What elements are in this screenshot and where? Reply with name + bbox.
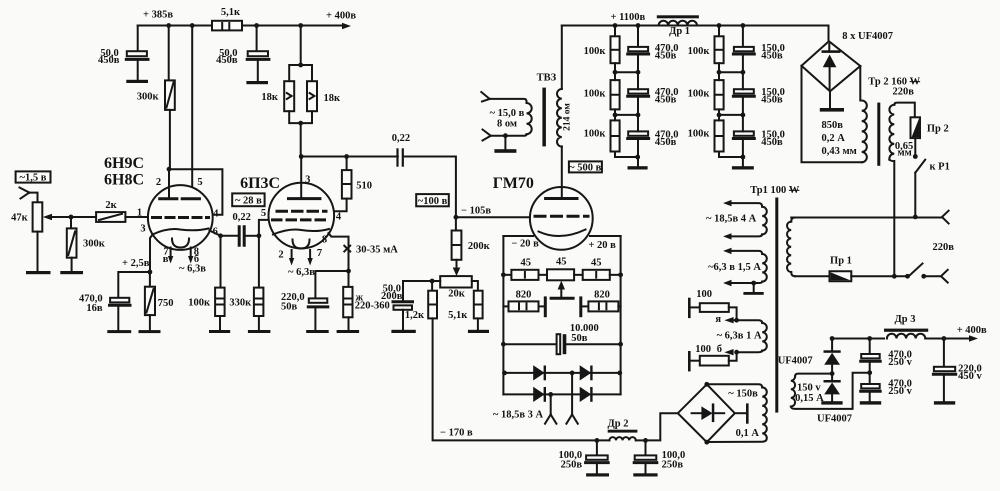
bias bridge plus bar bbox=[735, 403, 749, 423]
wire cathode1 to +2,5v node bbox=[150, 234, 153, 272]
svg-text:100к: 100к bbox=[584, 128, 607, 139]
svg-text:− 20 в: − 20 в bbox=[511, 239, 539, 250]
svg-text:б: б bbox=[717, 344, 722, 355]
svg-text:850в: 850в bbox=[822, 120, 844, 131]
resistor 820 left bbox=[503, 290, 543, 312]
capacitor 150,0 450v R1 bbox=[719, 26, 785, 75]
capacitor 0,22 second bbox=[392, 133, 410, 167]
capacitor 50,0 200v bbox=[381, 281, 432, 333]
svg-text:в: в bbox=[163, 254, 169, 265]
svg-text:45: 45 bbox=[556, 257, 567, 268]
resistor 300k plate bbox=[137, 26, 175, 170]
resistor 1,2k bbox=[405, 281, 437, 321]
svg-text:214 ом: 214 ом bbox=[563, 103, 573, 131]
svg-text:+ 400в: + 400в bbox=[326, 11, 356, 22]
svg-text:3: 3 bbox=[305, 175, 310, 186]
Tr1 winding 6,3v 1,5A bbox=[708, 248, 767, 287]
tube GM70 envelope bbox=[530, 187, 593, 250]
svg-text:+ 385в: + 385в bbox=[143, 10, 173, 21]
resistor 100 tap a bbox=[688, 289, 737, 320]
svg-text:250 v: 250 v bbox=[888, 357, 912, 368]
resistor 100k bleeder R1 bbox=[688, 26, 724, 73]
wire GM70 grid lead bbox=[456, 216, 530, 218]
svg-text:~ 6,3в: ~ 6,3в bbox=[288, 267, 315, 278]
wire coupling to GM70 grid bbox=[404, 157, 456, 218]
capacitor 470,0 450v L2 bbox=[615, 72, 679, 117]
Tr2 primary 220v winding bbox=[889, 103, 914, 277]
resistor 820 right bbox=[583, 290, 621, 312]
node grid 6P3S bbox=[257, 233, 262, 238]
mains fork top bbox=[942, 211, 949, 224]
svg-text:450в: 450в bbox=[761, 137, 783, 148]
svg-text:5: 5 bbox=[261, 208, 266, 219]
svg-text:Тр1 100 W: Тр1 100 W bbox=[750, 185, 800, 196]
svg-text:к Р1: к Р1 bbox=[930, 162, 950, 173]
wire input to pot bbox=[29, 193, 37, 203]
tube 6P3S screen grid dashes bbox=[277, 210, 326, 213]
svg-text:~ 500 в: ~ 500 в bbox=[569, 163, 601, 174]
svg-text:750: 750 bbox=[158, 298, 174, 309]
tube 6N9S heater hump bbox=[172, 239, 189, 248]
diode UF4007 top bbox=[778, 339, 841, 377]
capacitor 470,0 450v L1 bbox=[615, 26, 679, 75]
svg-text:5: 5 bbox=[197, 177, 202, 188]
svg-text:200к: 200к bbox=[468, 241, 491, 252]
svg-text:30-35 мА: 30-35 мА bbox=[356, 245, 398, 256]
svg-text:6Н8С: 6Н8С bbox=[104, 172, 144, 189]
svg-text:~ 6,3в: ~ 6,3в bbox=[179, 264, 206, 275]
node +2,5v bbox=[148, 270, 153, 275]
ground speaker bbox=[494, 133, 516, 153]
tube 6P3S envelope bbox=[269, 183, 335, 249]
svg-text:+ 20 в: + 20 в bbox=[588, 240, 616, 251]
svg-text:8 х UF4007: 8 х UF4007 bbox=[842, 31, 893, 42]
tube 6N9S grid dashes bbox=[153, 216, 209, 219]
hum wiper arrow bbox=[551, 281, 573, 299]
TVZ primary winding 214 Ohm bbox=[557, 26, 573, 147]
diode D3 row2 bbox=[533, 387, 546, 402]
svg-text:450в: 450в bbox=[655, 50, 677, 61]
resistor 220-360 cathode bbox=[337, 271, 390, 333]
svg-text:2к: 2к bbox=[105, 200, 117, 211]
svg-text:~ 28 в: ~ 28 в bbox=[235, 195, 262, 206]
svg-text:я: я bbox=[715, 314, 721, 325]
svg-text:8 ом: 8 ом bbox=[497, 118, 517, 129]
wire 2k to pin1 bbox=[125, 216, 148, 218]
svg-text:100к: 100к bbox=[584, 46, 607, 57]
svg-text:45: 45 bbox=[591, 257, 602, 268]
svg-text:450в: 450в bbox=[216, 55, 238, 66]
svg-text:45: 45 bbox=[520, 257, 531, 268]
svg-text:16в: 16в bbox=[86, 303, 103, 314]
ground pot bbox=[26, 232, 51, 275]
svg-text:UF4007: UF4007 bbox=[778, 356, 813, 367]
capacitor 0,22 first bbox=[233, 212, 251, 245]
svg-text:Др 1: Др 1 bbox=[669, 26, 690, 37]
box ~28v bbox=[232, 193, 264, 206]
wire cap to grid2 node bbox=[246, 235, 259, 237]
svg-text:+ 1100в: + 1100в bbox=[611, 12, 646, 23]
tube GM70 anode plate bbox=[546, 146, 577, 198]
tube GM70 grid dashes bbox=[535, 215, 588, 218]
svg-text:450в: 450в bbox=[98, 55, 120, 66]
fuse Pr2 bbox=[911, 117, 949, 138]
resistor 100k cathode load bbox=[188, 236, 230, 333]
svg-text:~6,3 в 1,5 А: ~6,3 в 1,5 А bbox=[708, 262, 761, 273]
resistor 300k grid leak bbox=[67, 217, 106, 258]
transformer Tr2 label bbox=[868, 76, 920, 97]
svg-text:~ 6,3в 1 А: ~ 6,3в 1 А bbox=[717, 330, 762, 341]
resistor 510 screen bbox=[335, 157, 372, 212]
svg-text:250 v: 250 v bbox=[888, 386, 912, 397]
chassis bar winding2 bbox=[743, 281, 763, 295]
node tap a arrow bbox=[715, 314, 739, 325]
svg-text:5,1к: 5,1к bbox=[221, 7, 241, 18]
svg-text:~ 18,5в 3 А: ~ 18,5в 3 А bbox=[493, 410, 544, 421]
node Dr2 left bbox=[595, 438, 600, 443]
choke Dr1 bbox=[657, 15, 699, 37]
svg-text:~ 18,5в 4 А: ~ 18,5в 4 А bbox=[706, 213, 757, 224]
switch mains bbox=[909, 264, 941, 279]
tube 6P3S heater hump bbox=[293, 240, 310, 249]
svg-text:4: 4 bbox=[213, 209, 219, 220]
wire diode row 2 bbox=[503, 392, 620, 397]
wire filament mid rail bbox=[501, 342, 623, 347]
svg-text:− 170 в: − 170 в bbox=[440, 427, 473, 438]
capacitor hum right plate bbox=[579, 296, 582, 317]
tube 6N9S anode 2 plate bbox=[182, 197, 199, 200]
label +400v with arrow bbox=[326, 11, 356, 30]
svg-text:450в: 450в bbox=[761, 50, 783, 61]
svg-text:50в: 50в bbox=[571, 333, 588, 344]
diode D4 row2 bbox=[580, 387, 593, 402]
svg-text:0,15 А: 0,15 А bbox=[795, 393, 824, 404]
node rail junction B bbox=[190, 23, 195, 28]
node cathode2 out bbox=[218, 233, 223, 238]
svg-text:220-360: 220-360 bbox=[355, 301, 390, 312]
svg-text:220в: 220в bbox=[893, 87, 915, 98]
svg-text:+ 400в: + 400в bbox=[957, 325, 987, 336]
node filament left bbox=[501, 272, 506, 277]
resistor 5,1k bbox=[212, 7, 242, 30]
node rail junction A bbox=[166, 23, 171, 28]
node rail junction D bbox=[298, 23, 303, 28]
wire +385v rail bbox=[138, 25, 342, 27]
Tr1 winding 6,3v 1A bbox=[717, 320, 767, 352]
svg-text:Др 3: Др 3 bbox=[895, 314, 916, 325]
resistor 100k bleeder R3 bbox=[688, 113, 743, 158]
resistor 100k bleeder L2 bbox=[584, 70, 620, 115]
resistor 100 tap b bbox=[688, 344, 737, 372]
potentiometer 20k bias bbox=[440, 260, 472, 300]
svg-text:4: 4 bbox=[336, 211, 342, 222]
TVZ secondary winding bbox=[490, 99, 532, 136]
fuse Pr1 bbox=[795, 256, 852, 282]
svg-text:0,43 мм: 0,43 мм bbox=[822, 146, 857, 157]
svg-text:250в: 250в bbox=[662, 459, 684, 470]
resistor 100k bleeder L1 bbox=[584, 26, 620, 73]
svg-text:450в: 450в bbox=[655, 137, 677, 148]
resistor 330k grid leak 6P3S bbox=[229, 236, 270, 333]
bias bridge diamond bbox=[678, 382, 735, 445]
wire grid riser 6P3S bbox=[259, 220, 269, 236]
node cathode 6P3S bbox=[346, 269, 351, 274]
wire +400v psu rail bbox=[830, 335, 978, 341]
svg-text:2: 2 bbox=[156, 177, 161, 188]
capacitor 470,0 250v top bbox=[861, 339, 913, 376]
node rail junction C bbox=[254, 23, 259, 28]
svg-text:100к: 100к bbox=[584, 88, 607, 99]
tube 6P3S cathode arc bbox=[273, 229, 329, 235]
ground 300k bbox=[60, 258, 83, 275]
speaker fork top bbox=[481, 92, 489, 102]
box ~500v bbox=[569, 161, 602, 173]
capacitor 50,0 450v second bbox=[216, 26, 269, 85]
svg-text:Др 2: Др 2 bbox=[608, 419, 629, 430]
capacitor 50,0 450v first bbox=[98, 26, 148, 84]
speaker fork bottom bbox=[483, 130, 491, 141]
diode UF4007 bottom bbox=[817, 374, 852, 425]
tube1 heater arrows 6,3v bbox=[163, 247, 206, 275]
svg-text:5,1к: 5,1к bbox=[448, 310, 468, 321]
tube2 heater arrows 6,3v bbox=[288, 250, 315, 278]
tube 6P3S control grid dashes bbox=[273, 218, 331, 221]
svg-text:~1,5 в: ~1,5 в bbox=[20, 173, 47, 184]
box ~100v bbox=[416, 194, 449, 207]
svg-text:300к: 300к bbox=[83, 238, 106, 249]
transformer Tr1 core bbox=[775, 198, 778, 413]
diode D2 row1 bbox=[580, 365, 593, 380]
capacitor 470,0 16v bbox=[79, 272, 150, 333]
capacitor 470,0 450v L3 bbox=[628, 115, 679, 170]
svg-text:100к: 100к bbox=[688, 88, 711, 99]
filament box outline bbox=[503, 236, 620, 394]
tube GM70 filament arc bbox=[539, 230, 586, 237]
svg-text:ТВЗ: ТВЗ bbox=[537, 73, 557, 84]
svg-text:820: 820 bbox=[516, 290, 532, 301]
filament AC fork 1 bbox=[545, 394, 556, 423]
node Dr2 right bbox=[643, 438, 648, 443]
svg-text:3: 3 bbox=[140, 224, 145, 235]
svg-text:450 v: 450 v bbox=[958, 371, 982, 382]
box ~1,5v bbox=[16, 171, 51, 183]
wire srpp box bbox=[167, 167, 223, 215]
capacitor hum left plate bbox=[544, 296, 547, 317]
svg-text:100к: 100к bbox=[688, 128, 711, 139]
Tr1 winding 150v bias bbox=[707, 384, 767, 442]
svg-text:330к: 330к bbox=[229, 298, 252, 309]
wire bias bridge to Dr2 bbox=[646, 413, 678, 440]
tube 6N9S cathode arc bbox=[153, 229, 209, 235]
capacitor 150,0 450v R2 bbox=[719, 72, 785, 117]
capacitor 150,0 450v R3 bbox=[732, 115, 785, 170]
node tap b arrow bbox=[717, 344, 739, 355]
svg-text:220в: 220в bbox=[933, 242, 955, 253]
svg-text:UF4007: UF4007 bbox=[817, 414, 852, 425]
wire mains top line bbox=[791, 215, 942, 220]
choke Dr3 bbox=[884, 314, 928, 339]
svg-text:− 105в: − 105в bbox=[461, 206, 491, 217]
wire mains bottom line bbox=[851, 274, 910, 279]
svg-text:0,2 А: 0,2 А bbox=[822, 133, 846, 144]
svg-text:820: 820 bbox=[594, 290, 610, 301]
svg-text:7: 7 bbox=[317, 248, 322, 259]
mains fork bottom bbox=[941, 270, 948, 283]
svg-text:1,2к: 1,2к bbox=[405, 310, 425, 321]
resistor 200k bias feed bbox=[452, 217, 491, 260]
wire diode row 1 bbox=[502, 371, 622, 376]
svg-text:8: 8 bbox=[322, 234, 327, 245]
capacitor 220,0 50v bbox=[281, 271, 349, 333]
wire +1100v rail bbox=[562, 23, 829, 28]
svg-text:20к: 20к bbox=[448, 289, 466, 300]
svg-text:510: 510 bbox=[356, 180, 372, 191]
svg-text:2: 2 bbox=[278, 250, 283, 261]
resistor 100k bleeder L3 bbox=[584, 113, 638, 158]
transformer TVZ core bbox=[542, 88, 546, 147]
Tr1 winding 150v 0,15A bbox=[791, 373, 870, 409]
Tr1 winding 18,5v 4A bbox=[706, 200, 767, 240]
filament AC fork 2 bbox=[566, 373, 577, 424]
svg-text:100: 100 bbox=[696, 289, 712, 300]
wire anode2 drop bbox=[191, 26, 193, 198]
wire pin6 to coupling node bbox=[210, 231, 239, 236]
wire anode node 6P3S bbox=[299, 123, 398, 159]
Tr1 primary 220v winding bbox=[787, 218, 795, 277]
Tr2 secondary 850v winding bbox=[802, 66, 867, 163]
svg-text:0,22: 0,22 bbox=[233, 212, 251, 223]
resistor 2k grid stopper bbox=[96, 200, 125, 222]
wire cathode 6P3S bbox=[329, 233, 399, 271]
bridge minus terminal bar bbox=[820, 91, 844, 111]
resistor 750 cathode bbox=[139, 272, 174, 333]
tube 6N9S anode 1 plate bbox=[160, 169, 177, 199]
capacitor 100,0 250v right bbox=[633, 440, 685, 476]
capacitor 100,0 250v left bbox=[558, 440, 609, 476]
input connector fork bbox=[20, 188, 30, 199]
resistor 45 right bbox=[574, 257, 621, 280]
svg-text:6Н9С: 6Н9С bbox=[104, 155, 144, 172]
resistor 45 left bbox=[503, 257, 538, 280]
svg-text:250в: 250в bbox=[561, 459, 583, 470]
capacitor 470,0 250v bottom bbox=[860, 373, 913, 405]
svg-text:47к: 47к bbox=[11, 213, 29, 224]
wire -170v rail bbox=[433, 318, 597, 440]
svg-text:300к: 300к bbox=[137, 92, 160, 103]
potentiometer 47k bbox=[11, 202, 96, 231]
resistor 45 middle hum pot bbox=[539, 257, 575, 281]
svg-text:ГМ70: ГМ70 bbox=[493, 175, 534, 192]
svg-text:0,1 А: 0,1 А bbox=[736, 428, 760, 439]
svg-text:~ 150в: ~ 150в bbox=[728, 389, 758, 400]
transformer Tr2 core bbox=[877, 103, 880, 166]
svg-text:50в: 50в bbox=[281, 302, 298, 313]
choke Dr2 bbox=[597, 419, 646, 441]
svg-text:100к: 100к bbox=[688, 46, 711, 57]
svg-text:450в: 450в bbox=[655, 94, 677, 105]
wire pot left node bbox=[430, 279, 441, 284]
resistor 5,1k bias bbox=[448, 281, 489, 333]
node grid1 junction bbox=[69, 215, 74, 220]
svg-text:200в: 200в bbox=[381, 291, 403, 302]
wire Tr2 return riser bbox=[892, 274, 897, 279]
svg-text:+ 2,5в: + 2,5в bbox=[122, 258, 150, 269]
node filament right bbox=[618, 272, 623, 277]
svg-text:0,22: 0,22 bbox=[392, 133, 410, 144]
svg-text:18к: 18к bbox=[324, 93, 342, 104]
svg-text:~100 в: ~100 в bbox=[418, 196, 448, 207]
resistor pair 18k 18k bbox=[261, 26, 341, 126]
svg-text:450в: 450в bbox=[761, 94, 783, 105]
svg-text:18к: 18к bbox=[261, 92, 279, 103]
bridge 8xUF4007 bbox=[802, 26, 894, 92]
capacitor 10.000 50v bbox=[557, 323, 599, 354]
svg-text:6П3С: 6П3С bbox=[240, 175, 280, 192]
tube 6P3S anode plate bbox=[289, 157, 320, 199]
capacitor 220,0 450v bbox=[933, 339, 982, 405]
svg-text:Пр 1: Пр 1 bbox=[830, 256, 852, 267]
node -105v bbox=[454, 215, 459, 220]
svg-text:Пр 2: Пр 2 bbox=[927, 124, 949, 135]
svg-text:100: 100 bbox=[695, 344, 711, 355]
diode D1 row1 bbox=[533, 365, 546, 380]
tube 6N9S envelope bbox=[148, 185, 213, 250]
svg-text:мм: мм bbox=[898, 148, 912, 159]
svg-text:100к: 100к bbox=[188, 298, 211, 309]
switch k R1 bbox=[913, 138, 950, 217]
resistor 100k bleeder R2 bbox=[688, 70, 724, 115]
